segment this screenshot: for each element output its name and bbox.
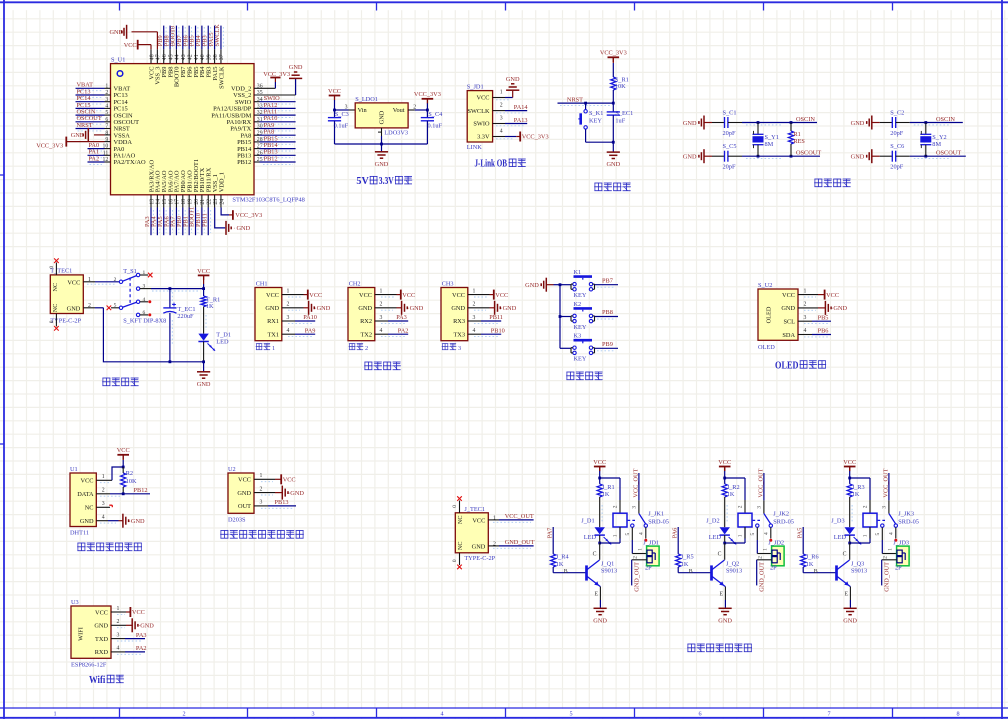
title relay control circuit bbox=[687, 644, 752, 652]
power VCC (OLED) bbox=[825, 290, 839, 300]
wire LED to coil return bbox=[843, 527, 870, 560]
power VCC_3V3 (LDO output) bbox=[414, 91, 441, 103]
svg-text:D203S: D203S bbox=[228, 516, 246, 523]
node VCC_OUT (J_JK1) bbox=[632, 468, 639, 497]
svg-text:GND: GND bbox=[851, 120, 865, 127]
title Wifi module bbox=[89, 675, 124, 686]
svg-text:45: 45 bbox=[168, 54, 174, 60]
node PB11 bbox=[201, 213, 208, 227]
svg-text:17: 17 bbox=[175, 199, 181, 205]
connector U3 ESP8266-12F bbox=[71, 599, 120, 668]
svg-text:21: 21 bbox=[200, 199, 206, 205]
svg-text:7: 7 bbox=[827, 711, 830, 718]
svg-text:OLED: OLED bbox=[775, 360, 799, 371]
svg-text:2: 2 bbox=[737, 505, 743, 508]
svg-text:Vin: Vin bbox=[358, 107, 368, 114]
svg-text:S_Y1: S_Y1 bbox=[765, 134, 779, 141]
wire D203S GND bbox=[254, 493, 282, 495]
svg-text:VCC: VCC bbox=[266, 292, 279, 299]
svg-text:14: 14 bbox=[156, 199, 162, 205]
svg-text:GND: GND bbox=[843, 617, 857, 624]
svg-text:NC: NC bbox=[52, 283, 59, 292]
svg-text:LED: LED bbox=[709, 534, 722, 541]
title serial circuit bbox=[364, 362, 401, 370]
svg-text:GND: GND bbox=[237, 490, 251, 497]
no-connect (T_S1 pin4) bbox=[148, 300, 151, 303]
wire PA9 (U1 pin 30) bbox=[254, 129, 296, 131]
svg-text:PB5: PB5 bbox=[818, 314, 829, 321]
wire LDO ground rail bbox=[335, 128, 428, 151]
wire NRST node bbox=[558, 90, 615, 105]
svg-text:R1: R1 bbox=[794, 131, 801, 138]
wire DHT11 GND bbox=[96, 521, 123, 523]
node PB4 bbox=[195, 34, 202, 46]
wire emitter to ground bbox=[849, 587, 851, 608]
svg-text:K1: K1 bbox=[574, 269, 582, 276]
svg-text:NRST: NRST bbox=[77, 122, 93, 129]
svg-text:0: 0 bbox=[452, 505, 458, 508]
svg-text:2: 2 bbox=[862, 505, 868, 508]
svg-text:KEY: KEY bbox=[574, 292, 587, 299]
resistor J_R3 1K bbox=[847, 484, 865, 498]
svg-text:C: C bbox=[843, 552, 847, 558]
svg-text:VCC: VCC bbox=[124, 42, 137, 49]
power VCC_3V3 (J-Link) bbox=[520, 132, 548, 142]
svg-text:·: · bbox=[315, 306, 317, 312]
wire U1 bottom pin 21 bbox=[201, 195, 203, 208]
svg-text:2P: 2P bbox=[770, 565, 777, 572]
svg-text:S_C2: S_C2 bbox=[890, 110, 904, 117]
svg-text:SDA: SDA bbox=[782, 332, 795, 339]
connector J_JD2 2P bbox=[768, 539, 784, 571]
resistor S_R1 10K bbox=[611, 76, 629, 90]
power VCC_3V3 (U1 pin 36) bbox=[263, 71, 290, 78]
wire PA11 (U1 pin 32) bbox=[254, 115, 296, 117]
node PA11 bbox=[264, 109, 278, 116]
wire PA3 (Wifi TXD) bbox=[111, 639, 145, 641]
wire U1 top pin 48 bbox=[150, 49, 152, 63]
svg-text:GND_OUT: GND_OUT bbox=[759, 562, 766, 592]
wire U1 bottom pin 22 bbox=[207, 195, 209, 208]
resistor T_R1 1K bbox=[201, 296, 220, 310]
capacitor T_EC1 220uF bbox=[163, 289, 195, 362]
wire PB5 (OLED SCL) bbox=[798, 321, 831, 323]
node PA7 bbox=[547, 528, 554, 539]
node PB12 bbox=[134, 487, 148, 494]
title key circuit bbox=[566, 372, 603, 380]
no-connect (J_JK3 pin4) bbox=[894, 539, 897, 542]
title OLED display bbox=[775, 360, 826, 371]
svg-text:S9013: S9013 bbox=[601, 568, 617, 575]
svg-text:4: 4 bbox=[804, 328, 807, 334]
svg-text:DATA: DATA bbox=[77, 491, 94, 498]
svg-text:S9013: S9013 bbox=[851, 568, 867, 575]
power VCC (J_JK1) bbox=[593, 459, 606, 471]
wire U1 bottom pin 19 bbox=[188, 195, 190, 208]
connector CH1 (serial port) bbox=[255, 280, 290, 340]
ground (U1 pin 8 VSSA) bbox=[71, 128, 111, 142]
svg-text:·: · bbox=[129, 519, 131, 525]
svg-text:8M: 8M bbox=[765, 141, 774, 148]
svg-text:KEY: KEY bbox=[589, 118, 602, 125]
svg-text:GND: GND bbox=[851, 154, 865, 161]
ground (U1 pin 47 VSS_3) bbox=[110, 25, 158, 50]
svg-text:E: E bbox=[845, 592, 849, 598]
ground (power block) bbox=[197, 372, 211, 388]
relay J_JK2 SRD-05 coil bbox=[737, 500, 762, 539]
svg-text:·: · bbox=[138, 624, 140, 630]
svg-text:OSCOUT: OSCOUT bbox=[796, 150, 821, 157]
svg-text:5: 5 bbox=[625, 533, 631, 536]
node PA5 bbox=[797, 528, 804, 539]
node PB6 bbox=[182, 35, 189, 46]
wire base bbox=[678, 567, 711, 575]
svg-text:ESP8266-12F: ESP8266-12F bbox=[71, 661, 107, 668]
svg-text:GND: GND bbox=[94, 623, 108, 630]
power VCC_3V3 (reset) bbox=[600, 50, 627, 62]
svg-text:SWCLK: SWCLK bbox=[214, 24, 221, 46]
svg-text:T_S1: T_S1 bbox=[123, 268, 137, 275]
wire base bbox=[803, 567, 836, 575]
wire J_R2 to LED bbox=[725, 497, 727, 527]
svg-text:KEY: KEY bbox=[574, 356, 587, 363]
svg-text:4: 4 bbox=[764, 532, 770, 535]
svg-text:GND: GND bbox=[140, 623, 154, 630]
wire emitter to ground bbox=[599, 587, 601, 608]
svg-text:4: 4 bbox=[287, 328, 290, 334]
wire reset to ground bbox=[586, 141, 615, 152]
svg-text:S_JD1: S_JD1 bbox=[467, 84, 484, 91]
svg-text:LED: LED bbox=[584, 534, 597, 541]
svg-text:S_C5: S_C5 bbox=[723, 143, 737, 150]
wire LDO Vout bbox=[408, 104, 429, 111]
svg-text:4: 4 bbox=[473, 328, 476, 334]
no-connect (J_JK1 pin4) bbox=[644, 539, 647, 542]
wire U1 bottom pin 23 bbox=[214, 195, 216, 208]
svg-text:J_JD2: J_JD2 bbox=[768, 539, 784, 546]
svg-text:3: 3 bbox=[804, 315, 807, 321]
wire PA15 (U1 pin 38) bbox=[215, 26, 217, 50]
power VCC (CH2) bbox=[401, 290, 415, 300]
node OSCIN bbox=[936, 116, 955, 123]
svg-text:19: 19 bbox=[187, 199, 193, 205]
node VCC_OUT (J_JK2) bbox=[757, 468, 764, 497]
svg-text:2: 2 bbox=[413, 104, 416, 110]
ground (J_Q3) bbox=[843, 608, 857, 624]
svg-text:NRST: NRST bbox=[567, 97, 583, 104]
svg-text:GND: GND bbox=[833, 305, 847, 312]
svg-text:4: 4 bbox=[102, 515, 105, 521]
node PA10 bbox=[264, 115, 278, 122]
svg-text:PA14: PA14 bbox=[514, 104, 529, 111]
wire PB11 (CH3 pin3) bbox=[468, 321, 501, 323]
node BOOT1 bbox=[189, 207, 196, 227]
node PB10 bbox=[195, 213, 202, 227]
LED T_D1 bbox=[198, 331, 231, 351]
connector U2 D203S bbox=[228, 466, 263, 523]
svg-text:E: E bbox=[720, 592, 724, 598]
wire U1 bottom pin 20 bbox=[195, 195, 197, 208]
wire PB13 (D203S OUT) bbox=[254, 506, 296, 508]
wire PA0 (U1 pin 10) bbox=[88, 149, 111, 151]
svg-text:44: 44 bbox=[175, 54, 181, 60]
power VCC (DHT11) bbox=[117, 447, 130, 459]
node PB5 bbox=[818, 314, 829, 321]
ground (Wifi) bbox=[132, 618, 154, 632]
svg-text:3: 3 bbox=[311, 711, 314, 718]
no-connect (T_S1 pin5) bbox=[107, 306, 112, 311]
svg-text:PA13: PA13 bbox=[514, 117, 528, 124]
svg-text:VCC: VCC bbox=[328, 88, 341, 95]
svg-text:2: 2 bbox=[114, 277, 117, 283]
svg-text:PB11: PB11 bbox=[489, 314, 503, 321]
wire VCC_OUT (J_TEC1 pin1) bbox=[488, 520, 533, 522]
svg-text:3: 3 bbox=[380, 315, 383, 321]
svg-text:PB12: PB12 bbox=[237, 159, 251, 166]
svg-text:VCC_3V3: VCC_3V3 bbox=[36, 142, 63, 149]
svg-text:4: 4 bbox=[380, 328, 383, 334]
svg-text:LED: LED bbox=[216, 338, 229, 345]
wire PA2 (Wifi RXD) bbox=[111, 652, 145, 654]
power VCC (J_JK2) bbox=[718, 459, 731, 471]
wire GND_OUT (J_JD3 pin2) bbox=[882, 556, 897, 586]
node VCC_OUT bbox=[505, 513, 534, 520]
ground (J_Q1) bbox=[593, 608, 607, 624]
node SWCLK bbox=[214, 24, 221, 46]
svg-text:NC: NC bbox=[457, 515, 464, 524]
svg-text:20pF: 20pF bbox=[723, 130, 736, 137]
node NRST bbox=[77, 122, 93, 129]
svg-text:J_R2: J_R2 bbox=[727, 484, 740, 491]
svg-text:·: · bbox=[501, 306, 503, 312]
svg-text:1: 1 bbox=[260, 473, 263, 479]
wire U1 top pin 42 bbox=[188, 49, 190, 63]
connector J_TEC1 TYPE-C-2P bbox=[452, 501, 496, 566]
svg-text:2: 2 bbox=[612, 505, 618, 508]
svg-text:LINK: LINK bbox=[467, 144, 482, 151]
title PIR module bbox=[220, 530, 304, 538]
wire key ground bus bbox=[554, 283, 572, 348]
svg-text:1: 1 bbox=[53, 711, 56, 718]
wire PA8 (U1 pin 29) bbox=[254, 135, 296, 137]
svg-text:S_KFT DIP-8X8: S_KFT DIP-8X8 bbox=[123, 317, 166, 324]
svg-text:20pF: 20pF bbox=[723, 163, 736, 170]
svg-text:4: 4 bbox=[440, 711, 443, 718]
svg-text:4: 4 bbox=[117, 646, 120, 652]
node VCC_OUT (J_JK3) bbox=[882, 468, 889, 497]
svg-text:8M: 8M bbox=[932, 141, 941, 148]
svg-text:VCC: VCC bbox=[718, 459, 731, 466]
svg-text:4: 4 bbox=[143, 297, 146, 303]
svg-text:GND_OUT: GND_OUT bbox=[634, 562, 641, 592]
svg-text:S_LDO1: S_LDO1 bbox=[355, 96, 378, 103]
connector J_JD1 2P bbox=[643, 539, 659, 571]
svg-text:·: · bbox=[288, 491, 290, 497]
svg-text:PB13: PB13 bbox=[275, 499, 289, 506]
svg-text:S9013: S9013 bbox=[726, 568, 742, 575]
svg-text:3: 3 bbox=[881, 506, 887, 509]
resistor R2 10K bbox=[121, 470, 137, 494]
svg-text:TYPE-C-2P: TYPE-C-2P bbox=[50, 317, 81, 324]
node PA1 bbox=[89, 149, 100, 156]
wire JD1 pin4 to VCC_3V3 bbox=[493, 137, 520, 139]
svg-text:3: 3 bbox=[260, 500, 263, 506]
svg-text:2: 2 bbox=[500, 103, 503, 109]
node OSCOUT bbox=[936, 150, 961, 157]
svg-text:VCC: VCC bbox=[477, 95, 490, 102]
svg-text:J_TEC1: J_TEC1 bbox=[464, 506, 485, 513]
title reset circuit bbox=[594, 183, 631, 191]
svg-text:1K: 1K bbox=[556, 561, 564, 568]
svg-text:3: 3 bbox=[473, 315, 476, 321]
switch K2 KEY bbox=[571, 301, 595, 331]
svg-text:GND: GND bbox=[375, 161, 389, 168]
svg-text:5: 5 bbox=[114, 303, 117, 309]
wire CH3 VCC bbox=[468, 295, 494, 297]
wire OSCOUT row bbox=[742, 155, 820, 159]
ground (J-Link pin1) bbox=[506, 76, 520, 90]
wire VCC_3V3 down bbox=[426, 103, 428, 110]
svg-text:1: 1 bbox=[380, 288, 383, 294]
svg-text:TX2: TX2 bbox=[360, 331, 372, 338]
node PB15 bbox=[264, 135, 278, 142]
relay J_JK2 switch bbox=[750, 500, 794, 540]
svg-text:1: 1 bbox=[500, 89, 503, 95]
svg-text:1: 1 bbox=[804, 288, 807, 294]
svg-text:T_EC1: T_EC1 bbox=[177, 306, 195, 313]
label serial port 2 bbox=[349, 343, 368, 352]
svg-text:GND: GND bbox=[683, 120, 697, 127]
no-connect (T_S1 pin1) bbox=[148, 273, 153, 278]
svg-text:VCC: VCC bbox=[843, 459, 856, 466]
wire U1 top pin 41 bbox=[195, 49, 197, 63]
svg-text:·: · bbox=[80, 132, 82, 138]
ground (CH3) bbox=[495, 301, 517, 315]
wire VBAT (U1 pin 1) bbox=[76, 88, 111, 90]
op-amp U1 body (STM32F103C8T6 MCU) bbox=[111, 57, 305, 204]
svg-text:GND: GND bbox=[358, 305, 372, 312]
transistor J_Q3 S9013 bbox=[837, 560, 868, 598]
resistor J_R2 1K bbox=[722, 484, 740, 498]
wire OSCOUT row bbox=[910, 155, 966, 159]
wire PB7 (U1 pin 43) bbox=[183, 26, 185, 50]
title power circuit bbox=[102, 378, 139, 386]
svg-text:PA10: PA10 bbox=[303, 314, 317, 321]
svg-text:S_C4: S_C4 bbox=[428, 111, 443, 118]
svg-text:S_Y2: S_Y2 bbox=[932, 134, 946, 141]
wire PB6 (OLED SDA) bbox=[798, 335, 831, 337]
wire CH2 GND bbox=[375, 308, 402, 310]
svg-text:PB12: PB12 bbox=[134, 487, 148, 494]
svg-text:J-Link OB: J-Link OB bbox=[475, 159, 508, 170]
svg-text:GND: GND bbox=[525, 282, 539, 289]
svg-text:NC: NC bbox=[457, 541, 464, 550]
node PB13 bbox=[264, 149, 278, 156]
svg-text:B: B bbox=[689, 569, 693, 575]
wire U1 top pin 43 bbox=[182, 49, 184, 63]
node PB9 bbox=[157, 35, 164, 46]
svg-text:GND: GND bbox=[265, 305, 279, 312]
ground (crystal C2 top) bbox=[851, 116, 880, 130]
wire GND to U1 pin 35 bbox=[254, 78, 296, 95]
svg-text:4: 4 bbox=[500, 128, 503, 134]
wire PA2 (U1 pin 12) bbox=[88, 162, 111, 164]
svg-text:PA2: PA2 bbox=[136, 645, 147, 652]
wire GND_OUT (J_TEC1 pin2) bbox=[488, 546, 533, 548]
svg-text:SCL: SCL bbox=[783, 319, 795, 326]
wire OSCIN row bbox=[910, 121, 963, 125]
wire base bbox=[553, 567, 586, 575]
wire VCC rail 2 bbox=[723, 467, 745, 501]
svg-text:3: 3 bbox=[117, 632, 120, 638]
svg-text:2: 2 bbox=[102, 488, 105, 494]
svg-text:VCC_3V3: VCC_3V3 bbox=[263, 71, 290, 78]
wire PB11 (U1 pin 22) bbox=[208, 208, 210, 236]
node GND_OUT (J_JD2) bbox=[759, 562, 766, 592]
wire T_R1 to LED bbox=[204, 307, 206, 334]
svg-text:1: 1 bbox=[862, 534, 868, 537]
node PB14 bbox=[264, 142, 279, 149]
node PA15 bbox=[208, 32, 215, 46]
wire PA5 (U1 pin 15) bbox=[164, 208, 166, 236]
connector CH3 (serial port) bbox=[441, 280, 476, 340]
svg-text:PB8: PB8 bbox=[602, 309, 613, 316]
svg-text:VCC: VCC bbox=[495, 292, 508, 299]
svg-text:Vout: Vout bbox=[393, 107, 405, 114]
svg-text:PB11: PB11 bbox=[201, 213, 208, 227]
power VCC (LDO input) bbox=[328, 88, 341, 100]
svg-text:GND: GND bbox=[67, 305, 81, 312]
svg-text:PB6: PB6 bbox=[818, 328, 829, 335]
wire PA6 (U1 pin 16) bbox=[170, 208, 172, 236]
svg-text:20: 20 bbox=[194, 199, 200, 205]
svg-text:S_C1: S_C1 bbox=[723, 110, 737, 117]
ground (LDO) bbox=[375, 152, 389, 168]
svg-text:2: 2 bbox=[804, 302, 807, 308]
no-connect (T_S1 pin6) bbox=[148, 313, 151, 316]
svg-text:J_Q1: J_Q1 bbox=[601, 560, 614, 567]
power VCC (CH3) bbox=[494, 290, 508, 300]
svg-text:J_JD1: J_JD1 bbox=[643, 539, 659, 546]
svg-text:5: 5 bbox=[750, 533, 756, 536]
svg-text:1: 1 bbox=[287, 288, 290, 294]
svg-text:VCC_OUT: VCC_OUT bbox=[505, 513, 534, 520]
svg-text:NC: NC bbox=[52, 304, 59, 313]
svg-text:U3: U3 bbox=[71, 599, 79, 606]
wire PB8 (K2) bbox=[595, 317, 619, 320]
svg-text:GND: GND bbox=[683, 154, 697, 161]
wire U1 bottom pin 16 bbox=[169, 195, 171, 208]
crystal S_Y2 8M bbox=[920, 123, 946, 157]
node PB7 bbox=[602, 277, 613, 284]
connector S_U2 (OLED) bbox=[758, 282, 807, 351]
wire VCC_3V3 to U1 pin 36 bbox=[254, 78, 275, 89]
capacitor S_C5 20pF bbox=[712, 143, 742, 170]
transistor J_Q1 S9013 bbox=[587, 560, 618, 598]
svg-text:VCC: VCC bbox=[95, 609, 108, 616]
node PA3 bbox=[396, 314, 407, 321]
node SWIO bbox=[264, 95, 281, 102]
capacitor S_EC1 1uF bbox=[607, 103, 634, 142]
svg-text:1K: 1K bbox=[602, 491, 610, 498]
wire PA7 (U1 pin 17) bbox=[176, 208, 178, 236]
svg-text:2: 2 bbox=[883, 556, 889, 559]
svg-text:0.1uF: 0.1uF bbox=[428, 123, 443, 130]
wire VCC_OUT (J_JK3 common) bbox=[888, 473, 890, 500]
wire PA4 (U1 pin 14) bbox=[157, 208, 159, 236]
svg-text:VCC: VCC bbox=[117, 447, 130, 454]
node BOOT0 bbox=[170, 26, 177, 46]
